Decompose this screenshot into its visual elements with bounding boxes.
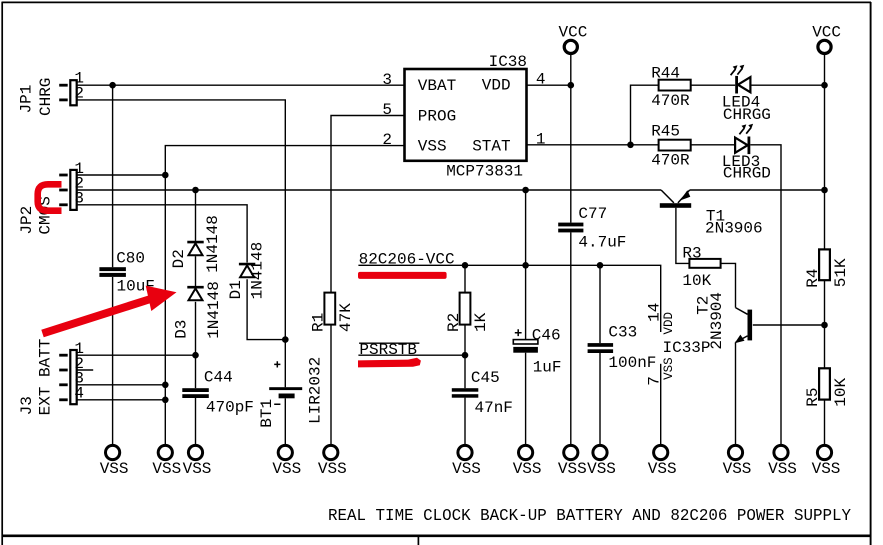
wire node to D2 top xyxy=(195,190,197,241)
wire D3 bottom to C44 node xyxy=(195,302,197,388)
wire STAT node up to R44 xyxy=(631,85,659,145)
junction VDD / VCC rail xyxy=(568,82,575,89)
resistor R5 xyxy=(804,368,850,406)
wire IC38 VSS (pin 2) to left rail down to J3/VSS xyxy=(165,146,404,446)
svg-text:470R: 470R xyxy=(651,151,690,169)
junction JP2 pin1 / VSS rail xyxy=(162,172,169,179)
wire PSRSTB node down to C45 xyxy=(464,355,466,388)
wire JP2 pin2 net across to T1 collector xyxy=(77,189,661,191)
frame bottom thick line xyxy=(2,534,871,537)
junction STAT / R44 xyxy=(627,142,634,149)
wire PSRSTB label underline/net xyxy=(358,354,465,356)
svg-text:VSS: VSS xyxy=(100,460,129,478)
wire VCC rail down to C77 xyxy=(570,55,572,223)
svg-text:C33: C33 xyxy=(608,323,637,341)
resistor R1 xyxy=(310,293,355,332)
svg-text:VDD: VDD xyxy=(482,77,511,95)
connector JP1 xyxy=(18,70,85,116)
wire IC38 PROG (pin 5) to R1 top xyxy=(331,116,405,293)
power VCC symbol right xyxy=(812,24,841,54)
wire JP2 pin1 xyxy=(77,174,166,176)
svg-text:VSS: VSS xyxy=(812,460,841,478)
red annotation: underline bar under 82C206-VCC xyxy=(358,272,447,279)
svg-text:C77: C77 xyxy=(578,205,607,223)
connector J3 xyxy=(18,339,84,416)
svg-text:1uF: 1uF xyxy=(533,358,562,376)
frame top border xyxy=(2,1,872,3)
svg-text:VCC: VCC xyxy=(559,24,588,42)
junction pin2 net / C46 branch xyxy=(522,187,529,194)
red annotation: arrow pointing to D2/D3 xyxy=(43,286,177,334)
wire VCC branch down to C80 xyxy=(112,85,114,267)
junction 82C206-VCC / C46 xyxy=(522,262,529,269)
svg-text:4: 4 xyxy=(536,70,546,88)
svg-text:D3: D3 xyxy=(173,320,191,339)
svg-text:D2: D2 xyxy=(170,249,188,268)
svg-text:VSS: VSS xyxy=(152,460,181,478)
svg-text:MCP73831: MCP73831 xyxy=(446,163,523,181)
power VCC symbol left xyxy=(559,24,588,54)
ground VSS (R5) xyxy=(812,445,841,478)
svg-text:47K: 47K xyxy=(337,303,355,332)
ground VSS (R1) xyxy=(318,445,347,478)
junction T2 base / R4 / R5 xyxy=(821,322,828,329)
junction JP2 pin2 / D2 xyxy=(192,187,199,194)
ground VSS (BT1) xyxy=(272,445,301,478)
svg-text:VSS: VSS xyxy=(183,460,212,478)
svg-text:VSS: VSS xyxy=(513,460,542,478)
transistor T2 2N3904 xyxy=(695,292,753,350)
svg-text:R4: R4 xyxy=(804,268,822,287)
svg-text:2N3904: 2N3904 xyxy=(708,292,726,350)
svg-text:VSS: VSS xyxy=(723,460,752,478)
svg-text:LIR2032: LIR2032 xyxy=(307,357,325,424)
svg-text:51K: 51K xyxy=(832,258,850,287)
junction D1 / BT1 xyxy=(282,336,289,343)
svg-text:2: 2 xyxy=(74,84,84,102)
wire T1 base down to R3 xyxy=(676,208,690,264)
svg-text:VSS: VSS xyxy=(662,357,676,380)
LED4 xyxy=(722,65,771,124)
transistor T1 2N3906 xyxy=(660,190,763,238)
svg-text:3: 3 xyxy=(382,71,392,89)
net label PSRSTB with overline xyxy=(359,341,419,359)
wire C77 bottom to VSS xyxy=(570,232,572,445)
svg-text:VBAT: VBAT xyxy=(418,77,456,95)
svg-text:R5: R5 xyxy=(804,387,822,406)
svg-text:BT1: BT1 xyxy=(258,399,276,428)
wire JP1 pin2 to BT1 plus xyxy=(77,100,286,387)
capacitor C45 xyxy=(452,369,513,417)
svg-text:4.7uF: 4.7uF xyxy=(578,233,626,251)
wire IC38 STAT (pin 1) to R45 xyxy=(527,144,659,146)
svg-text:PROG: PROG xyxy=(418,107,456,125)
ground VSS (C33) xyxy=(587,445,616,478)
junction JP1 pin1 / C80 xyxy=(109,82,116,89)
ground VSS (C44) xyxy=(183,445,212,478)
capacitor C44 xyxy=(182,368,254,416)
svg-text:VSS: VSS xyxy=(272,460,301,478)
svg-text:100nF: 100nF xyxy=(608,354,656,372)
wire IC33P VSS pin 7 to VSS xyxy=(660,364,662,445)
svg-text:CHRG: CHRG xyxy=(37,78,55,116)
wire J3 pin2 stub xyxy=(77,369,94,371)
wire R2 top branch xyxy=(464,265,466,292)
svg-text:1N4148: 1N4148 xyxy=(204,215,222,273)
capacitor C80 xyxy=(99,250,155,296)
wire R5 bottom to VSS xyxy=(824,400,826,446)
wire D2 bottom to D3 top xyxy=(195,256,197,286)
wire C45 bottom to VSS xyxy=(464,398,466,446)
svg-text:470pF: 470pF xyxy=(206,398,254,416)
wire R3 to T2 collector xyxy=(721,263,736,307)
svg-text:14: 14 xyxy=(646,303,664,322)
ground VSS (rail) xyxy=(152,445,181,478)
svg-text:5: 5 xyxy=(382,101,392,119)
svg-text:2: 2 xyxy=(382,131,392,149)
wire T2 base to R4/R5 node xyxy=(753,324,825,326)
wire R44 to LED4 xyxy=(691,84,736,86)
IC33P power pin labels xyxy=(646,303,711,386)
svg-text:EXT BATT: EXT BATT xyxy=(37,339,55,416)
resistor R44 xyxy=(651,64,690,110)
svg-text:R44: R44 xyxy=(651,64,680,82)
svg-text:REAL TIME CLOCK BACK-UP BATTER: REAL TIME CLOCK BACK-UP BATTERY AND 82C2… xyxy=(328,506,851,525)
svg-text:IC33P: IC33P xyxy=(663,339,711,357)
ground VSS (IC33P) xyxy=(648,445,677,478)
svg-text:470R: 470R xyxy=(651,92,690,110)
wire J3 pin1 xyxy=(77,354,196,356)
junction D3 / J3 pin1 / C44 xyxy=(192,352,199,359)
wire LED3 cathode down to VSS xyxy=(750,145,781,445)
capacitor C77 xyxy=(558,205,626,251)
resistor R3 xyxy=(682,245,720,290)
wire right VCC rail down to R4 xyxy=(824,55,826,250)
svg-text:JP1: JP1 xyxy=(18,85,36,114)
junction T1 emitter / VCC rail xyxy=(821,187,828,194)
wire R45 to LED3 xyxy=(691,144,736,146)
svg-text:2N3906: 2N3906 xyxy=(705,220,763,238)
wire R2 bottom to PSRSTB node xyxy=(464,325,466,356)
wire C33 branch xyxy=(599,265,601,343)
red annotation: C-shaped mark around JP2 pins xyxy=(38,184,62,210)
title block divider xyxy=(417,537,419,545)
resistor R4 xyxy=(804,249,850,287)
svg-text:IC38: IC38 xyxy=(489,53,527,71)
svg-text:10K: 10K xyxy=(832,377,850,406)
svg-text:1: 1 xyxy=(536,130,546,148)
junction 82C206-VCC / R2 xyxy=(462,262,469,269)
ground VSS (C80) xyxy=(100,445,129,478)
svg-text:STAT: STAT xyxy=(472,137,510,155)
wire 82C206-VCC net with label underline xyxy=(358,265,660,332)
svg-text:47nF: 47nF xyxy=(475,399,513,417)
svg-text:C80: C80 xyxy=(116,250,145,268)
wire R1 bottom to VSS xyxy=(330,325,332,446)
wire J3 pin3 xyxy=(77,384,166,386)
battery BT1 LIR2032 xyxy=(258,357,325,428)
svg-text:R3: R3 xyxy=(682,245,701,263)
wire IC38 VDD (pin 4) to VCC rail xyxy=(527,84,571,86)
svg-text:VSS: VSS xyxy=(558,460,587,478)
svg-text:VDD: VDD xyxy=(662,312,676,335)
frame right border xyxy=(870,2,872,545)
wire C46 bottom to VSS xyxy=(525,353,527,446)
wire BT1 minus to VSS xyxy=(284,398,286,445)
diode D3 1N4148 xyxy=(173,281,224,339)
svg-text:VSS: VSS xyxy=(318,460,347,478)
ground VSS (T2) xyxy=(723,445,752,478)
wire T2 emitter down to VSS xyxy=(735,342,737,445)
red annotation: underline bar under PSRSTB xyxy=(358,358,421,368)
wire T1 emitter to VCC rail xyxy=(690,189,825,191)
svg-text:JP2: JP2 xyxy=(18,206,36,235)
svg-text:C46: C46 xyxy=(532,326,561,344)
frame left border xyxy=(1,2,3,545)
svg-text:1N4148: 1N4148 xyxy=(249,242,267,300)
wire JP1 pin1 to IC38 VBAT (pin 3) xyxy=(77,84,405,86)
wire J3 pin4 xyxy=(77,399,166,401)
svg-text:VSS: VSS xyxy=(418,137,447,155)
svg-text:7: 7 xyxy=(646,376,664,386)
wire C44 bottom to VSS xyxy=(195,398,197,445)
svg-text:VSS: VSS xyxy=(648,460,677,478)
svg-text:CHRGG: CHRGG xyxy=(723,106,771,124)
wire LED4 anode to VCC rail xyxy=(751,84,825,86)
svg-text:C45: C45 xyxy=(471,369,500,387)
svg-text:C44: C44 xyxy=(204,368,233,386)
wire C46 branch from pin2 net xyxy=(525,190,527,340)
svg-text:3: 3 xyxy=(74,189,84,207)
capacitor C46 polarized xyxy=(513,326,561,376)
ground VSS (C77) xyxy=(558,445,587,478)
diode D2 1N4148 xyxy=(170,215,222,273)
connector JP2 xyxy=(18,160,84,235)
resistor R2 xyxy=(445,293,490,332)
wire C80 bottom to VSS xyxy=(112,277,114,445)
svg-text:VCC: VCC xyxy=(812,24,841,42)
ground VSS (LED3) xyxy=(768,445,797,478)
capacitor C33 xyxy=(588,323,657,372)
resistor R45 xyxy=(651,123,690,170)
wire C33 bottom to VSS xyxy=(599,353,601,445)
svg-text:R1: R1 xyxy=(310,313,328,332)
svg-text:R2: R2 xyxy=(445,313,463,332)
svg-text:CHRGD: CHRGD xyxy=(723,165,771,183)
svg-text:R45: R45 xyxy=(651,123,680,141)
LED3 xyxy=(722,124,771,183)
svg-text:VSS: VSS xyxy=(587,460,616,478)
svg-text:D1: D1 xyxy=(227,280,245,299)
svg-text:J3: J3 xyxy=(18,396,36,415)
wire D1 bottom to BT1 node xyxy=(247,279,285,339)
svg-text:82C206-VCC: 82C206-VCC xyxy=(359,250,455,268)
svg-text:1K: 1K xyxy=(472,312,490,332)
junction J3 pin3 xyxy=(162,382,169,389)
svg-text:10K: 10K xyxy=(682,272,711,290)
svg-text:1N4148: 1N4148 xyxy=(205,281,223,339)
diode D1 1N4148 xyxy=(227,242,267,300)
ground VSS (C45) xyxy=(452,445,481,478)
svg-text:VSS: VSS xyxy=(452,460,481,478)
junction PSRSTB / R2 / C45 xyxy=(462,352,469,359)
svg-text:VSS: VSS xyxy=(768,460,797,478)
junction J3 pin4 xyxy=(162,397,169,404)
op IC38 MCP73831 box xyxy=(382,53,545,180)
wire R4 bottom to R5 top xyxy=(824,280,826,368)
ground VSS (C46) xyxy=(513,445,542,478)
wire JP2 pin3 to D1 top xyxy=(77,205,247,263)
junction 82C206-VCC / C33 xyxy=(597,262,604,269)
junction LED4 / right VCC rail xyxy=(821,82,828,89)
svg-text:4: 4 xyxy=(74,384,84,402)
